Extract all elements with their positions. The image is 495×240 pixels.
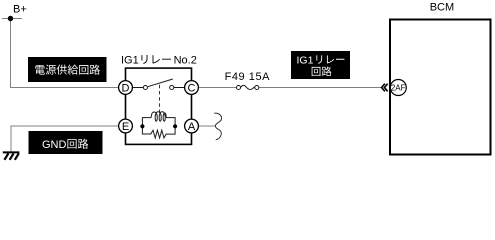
svg-text:E: E <box>122 121 129 133</box>
svg-text:BCM: BCM <box>430 2 454 14</box>
svg-text:No.2: No.2 <box>174 54 197 66</box>
svg-text:IG1: IG1 <box>297 54 314 66</box>
svg-text:IG1: IG1 <box>121 54 139 66</box>
svg-text:A: A <box>188 121 196 133</box>
svg-text:2AF: 2AF <box>391 83 406 92</box>
svg-text:GND: GND <box>42 139 67 151</box>
svg-text:F49 15A: F49 15A <box>225 71 271 83</box>
svg-text:D: D <box>122 82 130 94</box>
svg-text:C: C <box>188 82 196 94</box>
svg-text:B+: B+ <box>13 3 27 15</box>
